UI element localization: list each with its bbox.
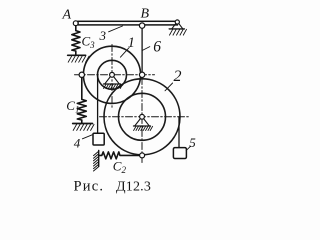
svg-text:B: B [141,7,150,22]
svg-text:Д12.3: Д12.3 [116,180,151,195]
pulley 2 inner circle [119,93,166,140]
node on right rim of pulley 1 [139,72,144,77]
svg-text:4: 4 [74,136,81,151]
spring C3 [72,26,80,55]
block 4 [93,133,104,145]
hatching under right support [170,29,187,35]
pivot of pulley 2 [134,114,151,126]
svg-text:5: 5 [189,135,196,150]
pulley 1 horizontal centerline [75,74,155,76]
node at bottom of pulley 2 [140,153,145,158]
pulley 2 outer circle [104,79,180,155]
wall anchor for spring C2 [98,150,100,166]
hinge A [73,21,78,26]
pulley 1 outer circle [83,46,140,103]
cord from pulley 1 inner rim down to block 4 [97,75,99,133]
spring C2 [99,152,140,159]
ground under C3 [68,54,86,56]
beam AB (rod 3) [78,21,177,25]
pulley 1 vertical centerline [111,45,113,109]
svg-text:2: 2 [174,68,182,85]
block 5 [173,148,186,159]
pivot of pulley 1 [104,72,121,84]
svg-text:3: 3 [99,28,107,43]
pulley 2 horizontal centerline [100,116,191,118]
spring C1 [77,78,86,123]
node on left rim of pulley 1 [79,72,84,77]
cord from pulley 2 rim down to block 5 [178,117,180,148]
ground under C1 [73,123,93,125]
hatching under pulley 1 pivot [104,84,123,88]
rod 6 from B down to pulley 1 rim [141,28,143,72]
svg-text:Рис.: Рис. [74,179,105,195]
pulley 1 inner circle [98,60,127,89]
hinge B [139,23,144,28]
hatching under pulley 2 pivot [134,126,153,130]
svg-text:A: A [62,8,72,23]
pulley 2 vertical centerline [141,78,143,165]
pin support at right end of beam [169,20,184,29]
svg-text:6: 6 [153,38,161,55]
